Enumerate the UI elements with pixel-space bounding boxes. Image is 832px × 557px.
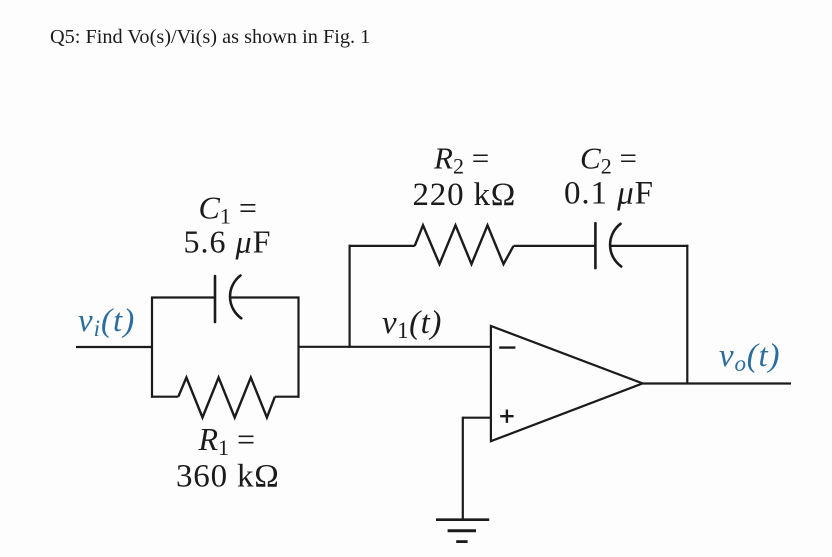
- svg-text:C2 =: C2 =: [580, 141, 637, 179]
- wire top branch from C1 to right: [231, 296, 300, 298]
- wire output: [643, 382, 791, 384]
- resistor R1: [178, 378, 275, 418]
- svg-text:R1 =: R1 =: [198, 421, 256, 460]
- svg-text:0.1 μF: 0.1 μF: [564, 176, 654, 212]
- label R1 value: [176, 421, 280, 495]
- op-amp U1: [491, 326, 643, 441]
- wire to ground: [462, 417, 464, 520]
- wire feedback left vertical: [349, 245, 351, 348]
- wire noninverting input: [463, 417, 491, 419]
- wire input: [76, 346, 152, 348]
- wire C2 to right vertical: [610, 245, 689, 247]
- svg-text:v1(t): v1(t): [382, 305, 442, 343]
- wire bottom branch to R1: [151, 396, 178, 398]
- svg-text:Q5: Find Vo(s)/Vi(s) as shown: Q5: Find Vo(s)/Vi(s) as shown in Fig. 1: [50, 26, 370, 48]
- wire top branch to C1: [151, 296, 215, 298]
- svg-text:R2 =: R2 =: [433, 141, 489, 179]
- pin plus sign: [500, 410, 513, 423]
- svg-text:5.6 μF: 5.6 μF: [184, 224, 272, 260]
- svg-text:220 kΩ: 220 kΩ: [413, 177, 517, 213]
- wire left branch vertical: [151, 297, 153, 398]
- capacitor C1: [215, 276, 241, 323]
- label C1 value: [184, 190, 272, 260]
- ground: [436, 520, 489, 542]
- wire feedback right vertical: [686, 245, 688, 384]
- svg-text:vo(t): vo(t): [719, 338, 780, 376]
- label C2 value: [564, 141, 654, 212]
- label R2 value: [413, 141, 517, 214]
- capacitor C2: [595, 223, 621, 268]
- wire right branch vertical: [297, 297, 299, 398]
- resistor R2: [415, 225, 514, 264]
- svg-text:vi(t): vi(t): [78, 303, 135, 341]
- wire feedback top to R2: [349, 245, 415, 247]
- pin minus sign: [499, 346, 515, 348]
- wire R2 to C2: [514, 245, 596, 247]
- wire main to op-amp: [299, 346, 492, 348]
- wire bottom branch from R1: [275, 396, 300, 398]
- svg-text:360 kΩ: 360 kΩ: [176, 459, 280, 495]
